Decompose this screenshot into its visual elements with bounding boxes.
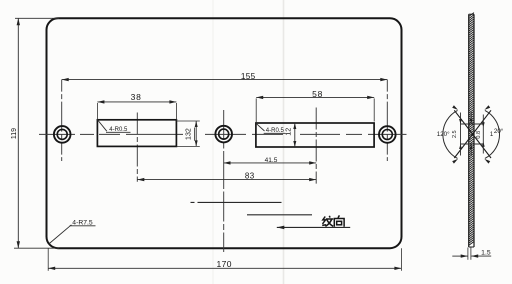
dimension 119	[11, 18, 59, 248]
dimension 38	[97, 92, 176, 121]
slot left	[97, 120, 176, 147]
vertical centerline centre hole	[223, 110, 225, 252]
dimension 41.5	[224, 157, 317, 165]
svg-text:4-R0.5: 4-R0.5	[109, 127, 128, 133]
svg-text:1.5: 1.5	[481, 250, 491, 257]
dimension 155	[62, 72, 388, 81]
V-cut detail box	[461, 124, 484, 144]
svg-text:0.8: 0.8	[476, 131, 482, 139]
svg-text:38: 38	[131, 92, 142, 102]
hole right	[379, 126, 396, 143]
svg-text:132: 132	[186, 128, 193, 140]
svg-text:20°: 20°	[494, 128, 504, 135]
label 4-R0.5 left slot	[98, 120, 131, 133]
svg-text:119: 119	[11, 128, 18, 139]
detail web dimension right (0.8)	[476, 115, 485, 154]
svg-text:120°: 120°	[437, 131, 450, 138]
angle arc right 120	[484, 105, 503, 163]
dimension 1.5 thickness	[452, 248, 491, 260]
dimension 170	[48, 248, 401, 271]
vertical centerline / extension right hole	[386, 80, 388, 161]
horizontal centerline	[39, 133, 407, 135]
slot right	[256, 123, 374, 147]
grain direction upper stroke	[191, 201, 282, 203]
label 4-R7.5 corner radius	[49, 219, 95, 243]
vertical centerline left slot	[136, 113, 138, 182]
vertical centerline / extension left hole	[61, 80, 63, 161]
hole centre	[215, 126, 232, 143]
dimension 83	[137, 172, 316, 182]
svg-text:12: 12	[283, 128, 292, 136]
dimension 12	[283, 123, 296, 147]
svg-text:41.5: 41.5	[265, 157, 278, 164]
svg-text:170: 170	[217, 259, 232, 269]
dimension 58	[256, 89, 374, 123]
section strip hatching	[469, 13, 474, 246]
plate outline	[47, 18, 402, 248]
svg-text:2.5: 2.5	[452, 130, 458, 138]
svg-text:4-R0.5: 4-R0.5	[266, 128, 285, 134]
svg-text:83: 83	[245, 172, 255, 181]
grain direction arrow and underline	[277, 226, 350, 230]
character 纹	[322, 216, 333, 227]
detail centre arrows on strip	[470, 112, 473, 156]
svg-text:4-R7.5: 4-R7.5	[72, 219, 93, 226]
vertical centerline right slot	[315, 108, 317, 184]
label 4-R0.5 right slot	[256, 123, 286, 134]
grain direction middle stroke	[247, 214, 312, 216]
V-cut diagonal (bottom-left to top-right)	[454, 110, 491, 158]
hole left	[54, 126, 71, 143]
angle arc left 120	[437, 105, 458, 163]
svg-text:58: 58	[312, 89, 323, 99]
dimension 13.2	[176, 121, 199, 146]
section strip outline	[469, 14, 474, 247]
svg-text:155: 155	[241, 72, 256, 81]
character 向	[334, 215, 344, 226]
detail depth dimension left (2.5)	[452, 113, 462, 156]
V-cut diagonal (top-left to bottom-right)	[454, 110, 491, 158]
